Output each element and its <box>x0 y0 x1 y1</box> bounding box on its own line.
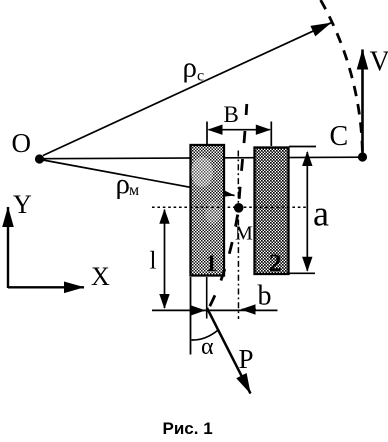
trajectory dashed arc <box>321 0 363 157</box>
bottom reference line <box>152 309 278 311</box>
vector rho_c <box>43 23 331 156</box>
svg-text:B: B <box>224 102 239 127</box>
deflected thread dashed curve <box>208 104 247 311</box>
dimension l arrow line <box>164 210 166 308</box>
svg-text:C: C <box>330 121 349 152</box>
svg-text:l: l <box>150 248 157 275</box>
vertical centerline dash-dot <box>237 151 239 320</box>
axis X arrow <box>8 286 84 288</box>
svg-text:V: V <box>370 47 388 78</box>
dimension a bottom extension <box>289 272 315 274</box>
dimension B right tick <box>270 122 272 147</box>
wire O-C horizontal line <box>40 157 363 159</box>
axis Y arrow <box>7 207 9 288</box>
svg-text:1: 1 <box>206 251 218 276</box>
svg-text:Y: Y <box>13 190 32 219</box>
dimension b right arrow <box>242 309 257 311</box>
svg-text:ρм: ρм <box>116 168 140 200</box>
rod 1 <box>191 145 225 276</box>
dimension B arrow line <box>209 129 270 131</box>
angle alpha arc <box>192 331 218 341</box>
vector rho_m <box>43 160 235 196</box>
point O <box>35 154 44 163</box>
svg-text:Рис. 1: Рис. 1 <box>163 419 213 438</box>
point M <box>234 203 244 213</box>
dimension b left arrow <box>191 309 205 311</box>
rod 1 centerline extension <box>206 277 208 319</box>
svg-text:P: P <box>239 344 254 374</box>
dimension a top extension <box>289 146 316 148</box>
svg-text:M: M <box>235 223 253 245</box>
svg-text:X: X <box>91 262 110 291</box>
dimension a arrow line <box>306 152 308 271</box>
svg-text:O: O <box>12 128 32 158</box>
svg-text:ρc: ρc <box>183 52 205 85</box>
horizontal dotted line through M <box>152 206 307 208</box>
force P vector <box>207 308 251 394</box>
svg-text:b: b <box>258 281 272 312</box>
vertical reference line below rod 1 <box>190 277 192 355</box>
rod 1 white patch <box>191 157 221 224</box>
rod 2 <box>255 148 289 275</box>
point C <box>358 152 367 161</box>
dimension B left tick <box>206 122 208 147</box>
vector V <box>361 50 364 158</box>
svg-text:2: 2 <box>269 250 282 277</box>
svg-text:a: a <box>313 194 329 234</box>
svg-text:α: α <box>201 334 214 360</box>
